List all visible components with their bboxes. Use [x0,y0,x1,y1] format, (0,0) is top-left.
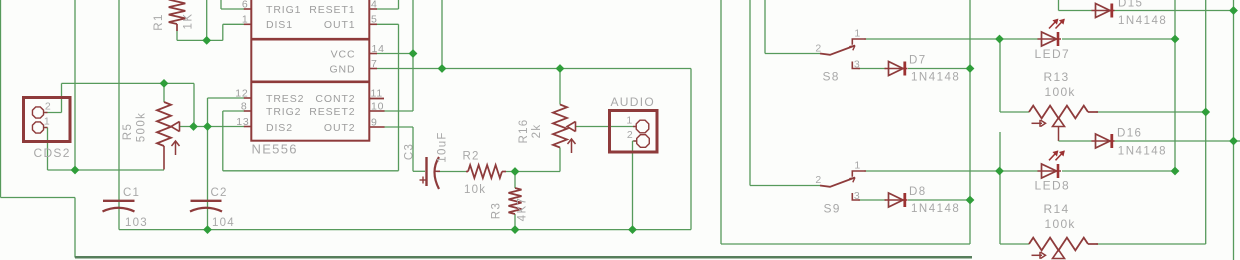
label S9 pin2 [815,174,822,186]
svg-text:1: 1 [854,27,861,39]
R16 adjust arrow [568,139,576,153]
svg-text:104: 104 [212,217,235,229]
wire AUDIO2 net [633,141,637,230]
label R14 [1044,202,1070,216]
svg-text:13: 13 [236,116,249,128]
wire R5 right drop [193,83,195,126]
wire R5 top lead [163,83,165,102]
label R13 value 100k [1045,85,1076,99]
svg-text:C2: C2 [211,187,228,199]
wire S9 pin1 to LED8 [864,170,1038,172]
wire R16 leads net [506,69,560,172]
label S8 pin3 [854,58,861,70]
AUDIO pad 2 [634,135,650,148]
diode D8 [885,193,908,207]
svg-text:R3: R3 [491,202,503,220]
label C3 [404,143,416,160]
R14 set arrow [1032,252,1046,259]
resistor R1 [169,0,186,31]
wire D7 cathode [908,68,970,70]
wire vertical x75 [74,0,76,170]
wire R5 wiper to pin13 [179,126,245,128]
label R2 [463,151,480,163]
svg-text:12: 12 [235,87,248,99]
svg-text:LED8: LED8 [1035,179,1071,193]
svg-text:6: 6 [242,0,249,10]
wire vertical x721 net [721,0,970,244]
capacitor C3 polarized [420,157,441,189]
label D15 value [1118,15,1167,27]
label D8 value [911,203,960,215]
trimmer R13 [1029,106,1098,127]
wire LED8 cathode [1062,170,1175,172]
wire LED7 cathode [1062,38,1175,40]
svg-text:4: 4 [371,0,378,10]
label R2 value 10k [464,184,486,196]
R5 adjust arrow [172,141,180,155]
wire R1 to pin1 DIS1 [177,24,245,40]
svg-text:DIS2: DIS2 [266,122,293,134]
resistor R3 [509,188,522,214]
svg-text:14: 14 [372,43,385,55]
svg-text:TRES2: TRES2 [266,93,304,105]
svg-text:D16: D16 [1117,128,1142,140]
label LED8 [1035,179,1071,193]
svg-text:R14: R14 [1044,202,1070,216]
wire bottom-left horizontal [1,197,76,199]
svg-text:OUT2: OUT2 [324,122,356,134]
wire D15 cathode [1112,10,1234,12]
svg-text:500k: 500k [136,112,148,143]
label R3 value 4K7 [517,197,529,222]
svg-text:AUDIO: AUDIO [611,95,656,109]
wire vertical x1205 [1205,0,1207,244]
connector AUDIO box [610,111,658,153]
wire S8 pin1 to LED7 [864,38,1038,40]
label CDS2 pad2 [45,100,52,112]
wire vertical x970 rail [969,0,971,244]
svg-text:2: 2 [627,129,634,141]
svg-text:CDS2: CDS2 [34,146,71,160]
label C3 value 10uF [437,131,449,162]
diode D15 [1092,4,1115,18]
svg-text:2k: 2k [531,124,543,139]
wire D15 anode feed [1059,0,1093,11]
svg-text:1: 1 [854,159,861,171]
label R16 [518,119,530,144]
svg-text:OUT1: OUT1 [324,19,356,31]
svg-text:TRIG1: TRIG1 [266,4,301,16]
svg-text:1: 1 [626,114,633,126]
resistor R2 [466,165,506,178]
svg-text:8: 8 [241,100,248,112]
label AUDIO pad2 [627,129,634,141]
label LED7 [1035,47,1071,61]
switch S8 [820,39,866,69]
svg-text:R2: R2 [463,151,480,163]
label AUDIO pad1 [626,114,633,126]
label C2 value 104 [212,217,235,229]
svg-text:DIS1: DIS1 [266,19,293,31]
label S8 [823,70,840,84]
svg-text:3: 3 [854,190,861,202]
svg-text:TRIG2: TRIG2 [266,106,301,118]
wire pin4 RESET1 [377,0,399,9]
label NE556 [252,142,298,157]
svg-text:D15: D15 [1118,0,1143,10]
LED LED7 [1038,19,1065,46]
wire S9 pin3 to D8 [858,199,886,201]
label C1 [123,187,140,199]
svg-text:CONT2: CONT2 [315,93,355,105]
wire D16 cathode [1112,140,1240,142]
svg-text:11: 11 [371,88,384,100]
label R3 [491,202,503,220]
wire R3 top lead [514,172,516,189]
wire left border vertical [0,0,2,198]
svg-text:RESET2: RESET2 [309,106,355,118]
AUDIO pad 1 [633,120,649,133]
LED LED8 [1038,151,1065,178]
wire C1 top vertical [118,0,120,230]
svg-text:1N4148: 1N4148 [911,72,960,84]
label D7 [909,55,927,67]
svg-text:R16: R16 [518,119,530,144]
svg-text:1N4148: 1N4148 [1118,146,1167,158]
svg-text:1K: 1K [183,13,195,30]
svg-text:10: 10 [371,101,384,113]
wire C2 top vertical [207,98,209,230]
capacitor C1 [103,201,135,212]
svg-text:10k: 10k [464,184,486,196]
IC pin stubs right [369,9,384,127]
svg-text:5: 5 [371,14,378,26]
wire pin8 TRIG2 net [223,24,399,171]
svg-text:LED7: LED7 [1035,47,1071,61]
wire R14 right [1096,243,1206,245]
wire vertical x442 [441,0,443,69]
svg-text:2: 2 [45,100,52,112]
IC U1 NE556 box [251,0,369,141]
wire right border vertical [1233,0,1235,260]
R13 set arrow [1032,120,1046,127]
label D8 [909,186,927,198]
wire LED7 junction to R13 [1000,39,1029,112]
svg-text:1: 1 [44,115,51,127]
label S9 pin3 [854,190,861,202]
label R16 value 2k [531,124,543,139]
svg-text:GND: GND [329,63,355,75]
potentiometer R5 [157,102,180,170]
svg-text:R5: R5 [122,123,134,141]
label R5 value 500k [136,112,148,143]
switch S9 [820,171,866,200]
wire GND pin7 net [377,69,692,230]
label AUDIO [611,95,656,109]
label R5 [122,123,134,141]
wire LED8 junction to R14 [1000,132,1029,244]
diode D16 [1092,134,1115,148]
CDS2 pad 2 [32,107,47,118]
wire S9 feed [750,0,820,186]
connector CDS2 box [24,98,71,142]
wire D8 cathode [908,199,970,201]
label D16 value [1118,146,1167,158]
CDS2 pad 1 [32,122,47,133]
label C2 [211,187,228,199]
svg-text:1N4148: 1N4148 [911,203,960,215]
svg-text:1N4148: 1N4148 [1118,15,1167,27]
label R13 [1044,70,1070,84]
svg-text:100k: 100k [1045,85,1076,99]
wire VCC pin14 net [377,0,414,111]
wire R16 wiper to AUDIO1 [576,126,636,128]
wire S8 feed [765,0,820,54]
wire left drop to bus [74,198,76,258]
label S9 [824,201,841,215]
IC pin numbers left [235,0,249,128]
label D15 [1118,0,1143,10]
svg-text:9: 9 [371,116,378,128]
wire pin12 TRES2 [208,97,245,99]
label S9 pin1 [854,159,861,171]
svg-text:R13: R13 [1044,70,1070,84]
svg-text:7: 7 [371,58,378,70]
IC pin names [266,4,356,134]
label R1 value 1k [183,13,195,30]
wire R13 right [1096,111,1206,113]
svg-text:103: 103 [125,217,148,229]
svg-text:100k: 100k [1045,217,1076,231]
svg-text:S8: S8 [823,70,840,84]
wire C3 to R2 [437,171,466,173]
svg-text:D7: D7 [909,55,927,67]
wire gnd bottom horizontal [119,229,691,231]
trimmer R14 [1029,238,1098,259]
svg-text:2: 2 [815,42,822,54]
IC pin stubs left [244,9,252,127]
IC pin numbers right [371,0,385,128]
svg-text:RESET1: RESET1 [309,4,355,16]
diode D7 [885,62,908,76]
capacitor C2 [190,201,222,212]
label S8 pin1 [854,27,861,39]
wire pin9 OUT2 to C3 [384,127,425,171]
wire S8 pin3 to D7 [858,68,886,70]
wire R3 bottom lead [514,214,516,230]
svg-text:2: 2 [815,174,822,186]
wire bottom bus [75,256,972,259]
svg-text:4K7: 4K7 [517,197,529,222]
svg-text:VCC: VCC [331,48,356,60]
label D7 value [911,72,960,84]
potentiometer R16 [553,105,576,148]
svg-text:1: 1 [242,14,249,26]
wire pin6 TRIG1 [221,0,245,9]
label S8 pin2 [815,42,822,54]
svg-text:D8: D8 [909,186,927,198]
svg-text:C1: C1 [123,187,140,199]
label R14 value 100k [1045,217,1076,231]
label CDS2 pad1 [44,115,51,127]
label C1 value 103 [125,217,148,229]
svg-text:3: 3 [854,58,861,70]
wire vertical x1175 [1174,0,1176,171]
wire R13 wiper to D16 [1059,127,1093,141]
wire R1 junction vertical [206,0,208,40]
wire CDS2 pin1 net [44,128,164,171]
svg-text:S9: S9 [824,201,841,215]
label R1 [153,13,165,31]
label D16 [1117,128,1142,140]
wire CDS2 pin2 net [44,83,194,112]
svg-text:R1: R1 [153,13,165,31]
svg-text:10uF: 10uF [437,131,449,162]
label CDS2 [34,146,71,160]
svg-text:C3: C3 [404,143,416,160]
svg-text:NE556: NE556 [252,142,298,157]
